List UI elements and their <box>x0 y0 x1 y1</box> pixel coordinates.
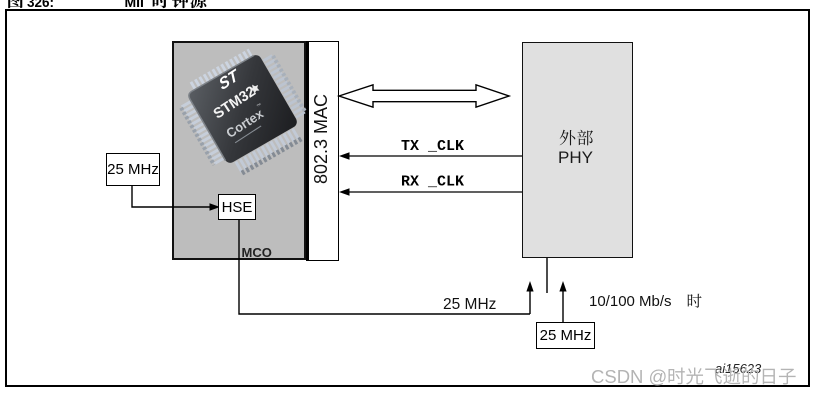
MCU block (STM32 device) <box>172 41 306 260</box>
svg-text:RX _CLK: RX _CLK <box>401 174 464 191</box>
svg-text:25 MHz: 25 MHz <box>443 296 496 313</box>
TX_CLK wire <box>339 152 522 160</box>
wire HSE to MCO out <box>239 220 530 314</box>
802.3 MAC label <box>320 138 322 140</box>
crystal 25 MHz box (PHY source) <box>536 322 595 349</box>
watermark CSDN @时光飞逝的日子 <box>0 355 817 395</box>
STM32 chip U1 <box>178 44 310 184</box>
svg-text:10/100 Mb/s: 10/100 Mb/s <box>589 293 672 310</box>
PHY clock stub wire <box>546 258 548 293</box>
svg-text:TX _CLK: TX _CLK <box>401 138 464 155</box>
MII data bus double arrow <box>339 85 509 107</box>
external PHY block <box>522 42 633 258</box>
up arrow to PHY (MCO clock) <box>526 281 533 314</box>
RX_CLK wire <box>339 188 522 196</box>
svg-text:CSDN @: CSDN @ <box>591 366 667 387</box>
802.3 MAC block <box>306 41 339 261</box>
figure title "图 326: MII 时钟源" (clipped at top) <box>0 0 817 12</box>
wire crystal to HSE <box>132 186 220 211</box>
HSE box <box>218 194 256 220</box>
PHY label 外部 PHY <box>522 42 633 258</box>
MCO label <box>242 245 272 260</box>
crystal 25 MHz box (HSE source) <box>106 153 160 186</box>
wire bottom crystal to PHY <box>559 281 566 322</box>
